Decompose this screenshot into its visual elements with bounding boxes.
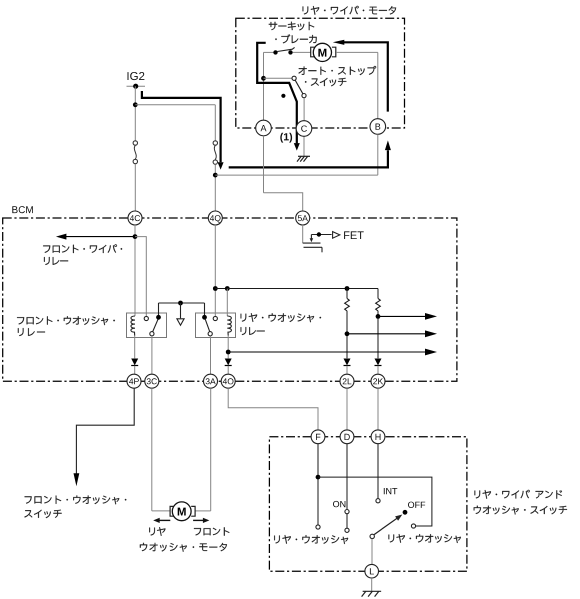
circuit breaker contact right <box>288 50 292 54</box>
current flow line motor to ground <box>257 43 297 144</box>
wire 4O to F <box>228 388 318 430</box>
junction FET gate <box>317 232 321 236</box>
rear relay NO contact <box>202 315 207 320</box>
signal arrow 2K sense <box>378 313 437 320</box>
wire coil feed to resistors <box>227 288 378 290</box>
junction B feed <box>213 173 218 178</box>
label rear (リヤ) <box>149 527 165 536</box>
wire 3C down <box>151 388 153 511</box>
wire F down <box>317 444 319 525</box>
terminal F <box>311 430 325 444</box>
signal arrow rear relay output <box>228 349 437 356</box>
terminal 3C <box>145 374 159 388</box>
label rear washer right (リヤ・ウオッシャ) <box>389 534 461 543</box>
label front (フロント) <box>194 527 229 535</box>
wire connector to 4C <box>134 164 136 211</box>
wire A-column vertical <box>263 52 265 120</box>
wire A to 5A <box>264 193 303 211</box>
wire motor right down to B <box>377 52 379 118</box>
label ON <box>333 501 345 507</box>
resistor R2 <box>376 298 381 311</box>
diode D3 <box>344 359 351 366</box>
terminal B <box>370 119 386 135</box>
wire coil feed down <box>226 289 228 317</box>
current flow line to B <box>229 150 388 167</box>
label front wiper relay line2 (リレー) <box>44 257 68 265</box>
ON contact lower <box>345 528 349 532</box>
label circuit breaker line2 (・ブレーカ) <box>275 34 316 43</box>
auto-stop switch alternate contact <box>281 94 285 98</box>
label rear washer relay line1 (リヤ・ウオッシャ・) <box>241 313 321 322</box>
rear washer relay K2 box <box>196 313 236 338</box>
wire branch down to connector <box>214 105 216 141</box>
wire pivot to L <box>371 539 373 565</box>
diode D2 <box>225 359 232 366</box>
wire L to ground <box>371 578 373 591</box>
wire 4Q down to relay <box>214 225 216 316</box>
terminal 4Q <box>208 211 222 225</box>
wire IG2 down <box>134 86 136 141</box>
diode D1 <box>131 359 138 366</box>
wire washer motor to 3A <box>195 510 211 512</box>
ON contact upper <box>345 510 349 514</box>
ground below terminal C <box>297 156 310 161</box>
ground below terminal L <box>362 591 382 596</box>
wire breaker left <box>264 51 274 53</box>
junction IG2 branch <box>133 102 138 107</box>
wire 2K to H <box>377 388 379 430</box>
wire breaker to motor <box>293 51 311 53</box>
terminal D <box>340 430 354 444</box>
label rear washer relay line2 (リレー) <box>241 327 265 335</box>
wire 3C to washer motor <box>152 510 170 512</box>
label IG2 <box>128 72 145 80</box>
ON contact blade <box>346 514 348 528</box>
front relay NO contact <box>156 315 161 320</box>
front washer relay K1 box <box>127 313 167 338</box>
washer contact right <box>411 524 415 528</box>
wire connector to 4Q <box>214 164 216 211</box>
current flow arrowhead into motor <box>333 40 345 45</box>
rear wiper and washer switch box <box>269 437 467 572</box>
junction auto-stop tap <box>261 76 266 81</box>
label circuit breaker line1 (サーキット) <box>269 22 315 31</box>
wire 2K column top <box>377 289 379 299</box>
wire 4Q to coil branch <box>215 288 227 290</box>
bus stub down <box>180 303 182 318</box>
wire motor to B corner <box>336 51 378 53</box>
wire front relay coil to diode <box>134 336 136 359</box>
wire front relay common to 3C <box>151 336 153 374</box>
signal arrow 2L sense <box>347 330 437 337</box>
wire 2K column mid <box>377 311 379 359</box>
label rear wiper motor (リヤ・ワイパ・モータ) <box>303 6 397 15</box>
signal arrow to front wiper relay <box>56 234 135 240</box>
rear relay NO riser <box>204 303 206 315</box>
label front wiper relay line1 (フロント・ワイパ・) <box>43 244 122 253</box>
motor M2 washer motor <box>170 502 195 521</box>
front relay NC contact <box>144 316 148 320</box>
wire diode to 4P <box>134 366 136 374</box>
wire washer bus <box>318 477 432 526</box>
current flow line into motor <box>344 42 388 111</box>
wire feed to B <box>215 174 377 176</box>
rear relay coil <box>227 316 231 335</box>
label front washer relay line2 (リレー) <box>18 328 45 336</box>
front relay blade <box>153 319 159 332</box>
terminal A <box>256 120 272 136</box>
wire C to ground <box>303 136 305 156</box>
selector pivot <box>370 534 374 538</box>
label auto-stop switch line2 (・スイッチ) <box>305 78 346 86</box>
junction washer bus <box>316 475 321 480</box>
auto-stop switch blade <box>295 80 303 94</box>
wire IG2 branch right <box>135 104 215 106</box>
front relay coil <box>131 316 135 335</box>
wire H down <box>377 444 379 499</box>
wire diode to 2K <box>377 366 379 374</box>
terminal 4P <box>127 374 141 388</box>
wire A down <box>263 136 265 193</box>
open arrow to body ground <box>177 319 184 326</box>
junction resistor 2L column <box>345 286 350 291</box>
junction coil feed <box>225 286 230 291</box>
IG2 supply bar <box>127 85 146 87</box>
FET symbol <box>303 235 332 253</box>
current flow arrowhead down to ground <box>294 143 300 151</box>
junction 4C branch <box>133 234 138 239</box>
wire 4P to front washer switch <box>76 388 134 474</box>
wire feed up to B <box>377 134 379 175</box>
wire diode to 4O <box>227 366 229 374</box>
label washer motor (ウオッシャ・モータ) <box>140 543 227 552</box>
IG2 node <box>133 84 138 89</box>
arrow rear direction <box>153 518 170 523</box>
resistor R1 <box>345 298 350 311</box>
arrowhead to front washer switch <box>74 473 80 486</box>
FET annotation triangle <box>333 232 340 239</box>
wire 5A down <box>302 225 304 243</box>
terminal 3A <box>204 374 218 388</box>
label front washer switch line2 (スイッチ) <box>24 510 61 518</box>
junction relay bus <box>178 301 183 306</box>
selector blade arrowhead <box>395 515 402 521</box>
wire to auto-stop contact <box>264 77 292 79</box>
junction 2K sense <box>376 314 381 319</box>
terminal H <box>371 430 385 444</box>
rear relay common contact <box>208 332 212 336</box>
arrow front direction <box>193 518 209 523</box>
label FET <box>344 231 364 239</box>
INT contact <box>376 499 380 503</box>
rear wiper motor unit box <box>236 18 405 128</box>
label auto-stop switch line1 (オート・ストップ) <box>299 66 377 75</box>
terminal 4O <box>221 374 235 388</box>
current flow arrowhead up into B <box>385 140 391 150</box>
current flow line from IG2 <box>142 91 221 162</box>
wire 2L column top <box>346 289 348 299</box>
rear relay NC contact <box>213 316 217 320</box>
junction rear coil output <box>226 350 231 355</box>
OFF position contact <box>403 510 408 515</box>
rear relay blade <box>205 319 210 332</box>
wire rear relay common to 3A <box>210 336 212 374</box>
selector blade <box>374 517 399 535</box>
current flow arrowhead at connector <box>218 162 224 169</box>
motor M1 rear wiper motor <box>311 43 336 61</box>
front relay common contact <box>150 332 154 336</box>
wire 3A down <box>210 388 212 511</box>
junction 2L sense <box>345 331 350 336</box>
terminal 4C <box>128 211 142 225</box>
in-line connector right <box>213 141 217 165</box>
label front washer relay line1 (フロント・ウオッシャ・) <box>17 316 115 325</box>
terminal L <box>365 564 379 578</box>
auto-stop switch contact lower <box>302 94 306 98</box>
label OFF <box>408 502 425 508</box>
relay bus wire <box>159 302 205 304</box>
wire D down <box>346 444 348 510</box>
wire 4C to relay NC contact <box>135 237 146 317</box>
terminal C <box>296 121 312 137</box>
circuit breaker contact left <box>273 50 277 54</box>
wire 2L to D <box>346 388 348 430</box>
label rear wiper and washer switch line1 (リヤ・ワイパ アンド) <box>475 490 563 499</box>
front relay NO riser <box>158 303 160 315</box>
label BCM <box>12 206 33 213</box>
circuit breaker blade <box>277 47 294 51</box>
label rear wiper and washer switch line2 (ウオッシャ・スイッチ) <box>474 506 567 515</box>
wire 4C down to junction <box>134 225 136 316</box>
label rear washer left (リヤ・ウオッシャ) <box>274 535 348 544</box>
label INT <box>384 488 398 494</box>
wire diode to 2L <box>346 366 348 374</box>
label (1) ground reference <box>280 133 292 143</box>
terminal 2L <box>340 374 354 388</box>
washer contact left <box>316 525 320 529</box>
label front washer switch line1 (フロント・ウオッシャ・) <box>25 496 127 505</box>
junction 4Q branch <box>213 286 218 291</box>
wire 2L column mid <box>346 311 348 359</box>
wire rear coil to diode <box>227 336 229 359</box>
terminal 5A <box>296 211 310 225</box>
in-line connector left <box>133 141 137 164</box>
BCM box <box>3 218 457 381</box>
wire auto-stop to C <box>303 98 305 121</box>
auto-stop switch contact upper <box>292 76 296 80</box>
diode D4 <box>375 359 382 366</box>
terminal 2K <box>371 374 385 388</box>
